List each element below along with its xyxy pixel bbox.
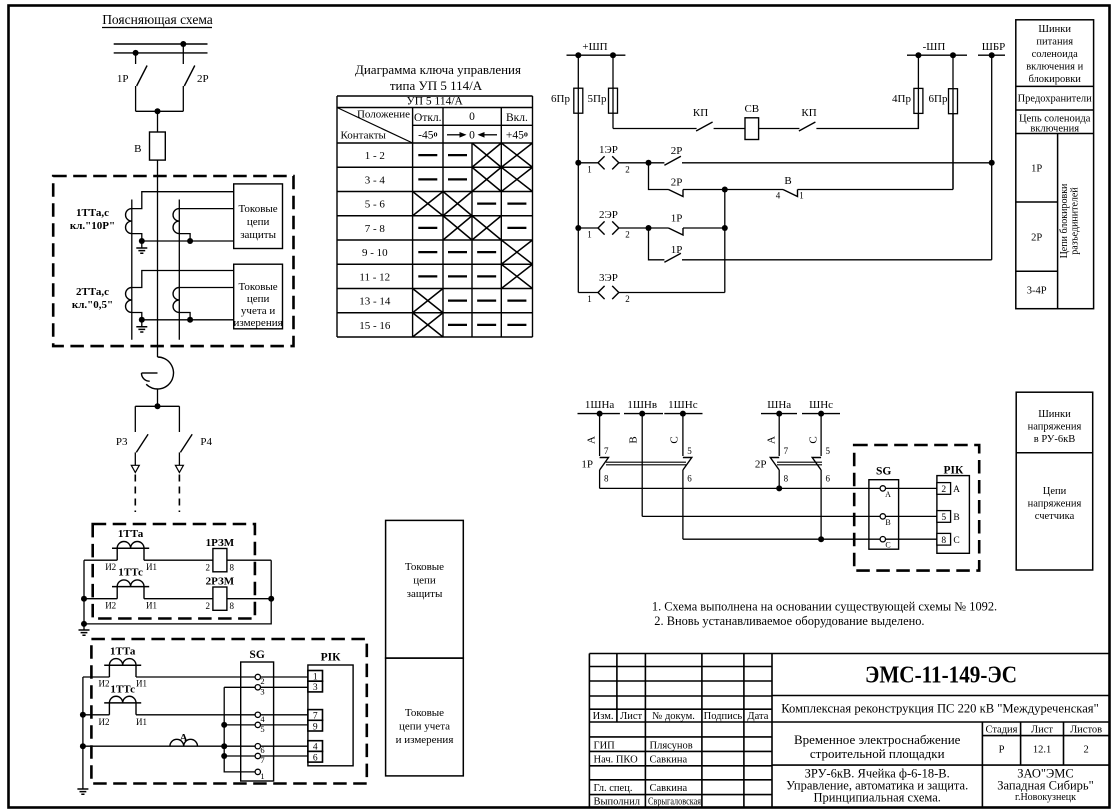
svg-text:5 - 6: 5 - 6	[365, 199, 386, 211]
svg-text:Предохранители: Предохранители	[1018, 94, 1093, 105]
svg-text:4: 4	[776, 191, 781, 201]
wire: SG 6 to РIК 4	[261, 745, 308, 747]
svg-text:напряжения: напряжения	[1028, 499, 1082, 510]
svg-text:А: А	[180, 732, 188, 744]
wire: СВ to contact КП (right)	[759, 128, 800, 130]
fuse 6Пр (right)	[952, 55, 954, 189]
svg-text:РIК: РIК	[943, 465, 964, 477]
node: ШНс tie on phase C row	[818, 536, 824, 542]
node: ground tie	[81, 621, 87, 627]
legend box: Токовые цепи защиты	[386, 520, 464, 658]
mechanical link of 1Р poles	[606, 462, 686, 465]
svg-text:5: 5	[941, 513, 946, 523]
svg-text:В: В	[784, 175, 791, 187]
svg-text:Цепи блокировки: Цепи блокировки	[1059, 183, 1070, 258]
svg-text:И1: И1	[136, 717, 147, 727]
svg-text:№ докум.: № докум.	[652, 711, 695, 722]
open arrow under Р3	[131, 465, 139, 472]
svg-text:2: 2	[625, 230, 630, 240]
wire: 6Пр down to contact В row	[952, 114, 954, 190]
wire: 1ТТа secondary bottom tap	[132, 234, 142, 241]
SG terminal 3	[255, 685, 260, 690]
disconnector contact 2Р phase a	[778, 414, 780, 456]
svg-text:типа УП 5 114/А: типа УП 5 114/А	[390, 78, 483, 93]
node: branch to 2Р NC	[646, 160, 652, 166]
svg-text:В: В	[134, 143, 141, 155]
open arrow under Р4	[175, 465, 183, 472]
node: ammeter row on ground bus	[80, 743, 86, 749]
svg-text:1Р: 1Р	[671, 213, 683, 225]
svg-text:Р3: Р3	[116, 436, 128, 448]
svg-text:SG: SG	[249, 649, 264, 661]
svg-text:2: 2	[206, 601, 211, 611]
header arrows →0←	[447, 134, 462, 136]
svg-text:+ШП: +ШП	[582, 41, 607, 53]
svg-text:ШБР: ШБР	[982, 41, 1006, 53]
svg-text:И2: И2	[105, 601, 116, 611]
svg-text:1ТТа,с: 1ТТа,с	[76, 207, 109, 219]
svg-text:SG: SG	[876, 466, 891, 478]
node: row 2ЭР on left riser	[575, 225, 581, 231]
disconnector 2Р	[182, 44, 184, 64]
РIК terminal 1	[308, 671, 323, 682]
node: ammeter row on loop riser	[221, 743, 227, 749]
svg-text:8: 8	[230, 601, 235, 611]
wire: 1ТТс secondary top tap	[179, 208, 233, 210]
svg-text:2Р: 2Р	[1031, 233, 1042, 244]
node: 4Пр tap on -ШП	[915, 52, 921, 58]
node: row2 on right return	[268, 596, 274, 602]
legend panel: solenoid/blocking circuits	[1016, 20, 1094, 309]
svg-text:Вкл.: Вкл.	[506, 112, 528, 124]
node: row 1ЭР on left riser	[575, 160, 581, 166]
svg-text:С: С	[669, 436, 681, 443]
node: row2 on left ground bus	[81, 596, 87, 602]
svg-text:ШНа: ШНа	[767, 399, 791, 411]
svg-text:2: 2	[625, 294, 630, 304]
svg-text:Западная Сибирь": Западная Сибирь"	[997, 779, 1093, 793]
SG terminal 5	[255, 722, 260, 727]
title block grid	[589, 654, 1108, 808]
current transformer 2ТТа secondary winding	[126, 288, 132, 313]
node: 2ТТс tap on return	[187, 317, 193, 323]
svg-text:СВ: СВ	[744, 103, 759, 115]
svg-text:3: 3	[313, 683, 318, 693]
svg-text:А: А	[586, 436, 598, 444]
svg-text:15 - 16: 15 - 16	[359, 320, 391, 332]
legend box: Токовые цепи учета и измерения	[386, 658, 464, 776]
svg-text:включения: включения	[1030, 124, 1079, 135]
wire: SG 4 to РIК 7	[261, 714, 308, 716]
node: junction 2Р NC / В / 1Р riser	[722, 187, 728, 193]
ground of metering circuit	[77, 789, 88, 794]
wire: 1Р NC to riser	[683, 227, 725, 229]
node: 1ТТс tap on return	[187, 238, 193, 244]
svg-text:13 - 14: 13 - 14	[359, 296, 391, 308]
wire: ammeter row (to SG 6)	[83, 745, 255, 747]
wire: 5Пр to contact КП	[613, 128, 697, 130]
wire: SG B to РIК 5	[886, 515, 937, 517]
node: row2 on ground bus	[80, 712, 86, 718]
wire: metering row 2 (to SG 4)	[83, 714, 255, 716]
svg-text:Стадия: Стадия	[985, 725, 1017, 736]
svg-text:1: 1	[799, 191, 804, 201]
svg-text:7: 7	[604, 446, 609, 456]
wire: protection left ground bus	[83, 560, 85, 630]
svg-text:УП 5 114/А: УП 5 114/А	[407, 96, 464, 108]
wire: phase A row to SG	[600, 487, 881, 489]
svg-text:кл."10Р": кл."10Р"	[70, 220, 115, 232]
РIК terminal 4	[308, 741, 323, 752]
wire: SG 5 branch	[224, 724, 255, 726]
РIК terminal 5 (phase B)	[937, 511, 951, 523]
ground of 2ТТ secondary	[141, 320, 143, 327]
svg-text:Диаграмма ключа управления: Диаграмма ключа управления	[355, 62, 521, 77]
svg-text:И1: И1	[146, 601, 157, 611]
box: Токовые цепи защиты (explanatory)	[234, 184, 283, 249]
svg-text:1ЭР: 1ЭР	[599, 144, 618, 156]
svg-text:И1: И1	[136, 679, 147, 689]
svg-text:2Р: 2Р	[755, 459, 767, 471]
svg-text:6: 6	[687, 474, 692, 484]
svg-text:Савкина: Савкина	[650, 755, 688, 766]
svg-text:Поясняющая схема: Поясняющая схема	[102, 12, 213, 27]
wire: SG 3 branch	[224, 686, 255, 688]
svg-text:Токовые: Токовые	[239, 281, 278, 293]
wire: 1Р NO to ШБР riser	[682, 259, 992, 261]
РIК terminal 6	[308, 751, 323, 762]
svg-text:2Р: 2Р	[671, 145, 683, 157]
svg-text:12.1: 12.1	[1033, 745, 1051, 756]
wire: phase c conductor	[178, 200, 180, 340]
node: ground tie of 2ТТ secondaries	[139, 317, 145, 323]
svg-text:6: 6	[826, 474, 831, 484]
svg-text:Принципиальная схема.: Принципиальная схема.	[813, 791, 941, 805]
svg-text:Шинки: Шинки	[1038, 409, 1071, 420]
test block SG (voltage)	[869, 480, 899, 550]
svg-text:Цепи: Цепи	[1043, 486, 1067, 497]
svg-text:1: 1	[587, 294, 592, 304]
svg-text:3 - 4: 3 - 4	[365, 174, 386, 186]
svg-text:1Р: 1Р	[581, 459, 593, 471]
svg-text:Сврыгаловская: Сврыгаловская	[648, 797, 701, 808]
svg-text:1ТТа: 1ТТа	[118, 528, 144, 540]
legend panel: voltage circuits	[1016, 392, 1092, 570]
wire: 1ТТс secondary bottom tap	[179, 234, 190, 241]
node: SG 5 branch	[221, 722, 227, 728]
svg-text:С: С	[808, 436, 820, 443]
wire: 2ТТс secondary bottom tap	[179, 313, 190, 320]
circuit breaker В	[150, 132, 166, 160]
svg-text:6Пр: 6Пр	[929, 93, 948, 105]
svg-text:В: В	[628, 436, 640, 443]
SG terminal 6	[255, 744, 260, 749]
SG terminal 4	[255, 712, 260, 717]
svg-text:Токовые: Токовые	[239, 203, 278, 215]
svg-text:1ТТс: 1ТТс	[118, 567, 143, 579]
wire: SG 7 to РIК 6	[261, 755, 308, 757]
node: ШБР tap	[989, 52, 995, 58]
svg-text:КП: КП	[801, 107, 816, 119]
svg-text:цепи учета: цепи учета	[399, 721, 450, 733]
svg-text:С: С	[885, 541, 890, 550]
wire: SG loop riser (3-1)	[224, 687, 255, 772]
wire: 2ТТс secondary top tap	[179, 287, 233, 289]
svg-text:А: А	[766, 436, 778, 444]
node: junction above Р3/Р4	[155, 403, 161, 409]
svg-text:2Р: 2Р	[671, 177, 683, 189]
РIК terminal 7	[308, 710, 323, 721]
disconnector contact 2Р phase c	[820, 414, 822, 456]
diagonal of Положение/Контакты cell	[337, 108, 413, 144]
svg-text:разъединителей: разъединителей	[1070, 187, 1081, 255]
svg-text:2: 2	[206, 563, 211, 573]
svg-text:1ТТс: 1ТТс	[110, 684, 135, 696]
РIК terminal 9	[308, 720, 323, 731]
wire: protection row 1	[84, 559, 271, 561]
svg-text:цепи: цепи	[247, 293, 270, 305]
ground of 1ТТ secondary	[141, 241, 143, 248]
wire: 1ТТ secondary return to protection box	[142, 240, 234, 242]
wire: ШБР riser	[991, 55, 993, 260]
svg-text:И1: И1	[146, 562, 157, 572]
node: 5Пр tap on +ШП	[610, 52, 616, 58]
svg-text:Откл.: Откл.	[414, 112, 442, 124]
svg-text:Изм.: Изм.	[593, 711, 614, 722]
wire: phase C row to SG	[683, 538, 880, 540]
SG terminal B	[880, 514, 885, 519]
meter РIК (current terminals)	[308, 665, 353, 766]
box: Токовые цепи учета и измерения (explanatory)	[234, 264, 283, 329]
svg-text:0: 0	[469, 111, 475, 123]
svg-text:ШНс: ШНс	[809, 399, 833, 411]
current transformer 2ТТс secondary winding	[173, 288, 179, 313]
wire: cable to Р3/Р4 junction	[157, 389, 159, 406]
svg-text:Токовые: Токовые	[405, 561, 444, 573]
wire: phase a conductor	[131, 200, 133, 340]
svg-text:напряжения: напряжения	[1028, 422, 1082, 433]
svg-text:2ТТа,с: 2ТТа,с	[76, 286, 109, 298]
svg-text:1Р: 1Р	[1031, 164, 1042, 175]
svg-text:Подпись: Подпись	[704, 711, 743, 722]
svg-text:8: 8	[784, 474, 789, 484]
svg-text:1. Схема выполнена на основани: 1. Схема выполнена на основании существу…	[652, 600, 997, 614]
fuse 5Пр	[612, 55, 614, 128]
РIК terminal 3	[308, 681, 323, 692]
svg-text:9 - 10: 9 - 10	[362, 247, 388, 259]
key contact 1ЭР	[578, 162, 598, 164]
wire: SG A to РIК 2	[886, 487, 937, 489]
wire: phase B row to SG	[642, 515, 880, 517]
svg-text:Лист: Лист	[620, 711, 642, 722]
svg-text:8: 8	[941, 536, 946, 546]
wire: join of 1Р and 2Р	[136, 110, 184, 112]
svg-text:Выполнил: Выполнил	[594, 797, 641, 808]
wire: 3ЭР to riser	[619, 292, 725, 294]
svg-text:Лист: Лист	[1031, 725, 1053, 736]
svg-text:ГИП: ГИП	[594, 741, 616, 752]
SG terminal 2	[255, 674, 260, 679]
SG terminal 1	[255, 769, 260, 774]
key contact 3ЭР	[578, 292, 598, 294]
svg-text:1ТТа: 1ТТа	[110, 646, 136, 658]
svg-text:Комплексная реконструкция ПС 2: Комплексная реконструкция ПС 220 кВ "Меж…	[781, 702, 1099, 716]
dashed cell boundary (metering CT compartment)	[91, 639, 366, 784]
wire: 2ТТ secondary return to metering box	[142, 319, 234, 321]
svg-text:в РУ-6кВ: в РУ-6кВ	[1034, 434, 1075, 445]
wire: breaker В to cable head (phase b main line)	[157, 160, 159, 357]
wire: 2Р NC to В	[683, 189, 783, 191]
disconnector 1Р	[135, 53, 137, 64]
svg-text:1ШНв: 1ШНв	[627, 399, 657, 411]
svg-text:7: 7	[784, 446, 789, 456]
svg-text:1 - 2: 1 - 2	[365, 150, 385, 162]
svg-text:цепи: цепи	[247, 216, 270, 228]
svg-text:В: В	[885, 518, 890, 527]
svg-text:1Р: 1Р	[117, 73, 129, 85]
node: row2 on 724 riser	[722, 225, 728, 231]
svg-text:г.Новокузнецк: г.Новокузнецк	[1015, 792, 1076, 803]
svg-text:9: 9	[313, 722, 318, 732]
svg-text:1: 1	[587, 165, 592, 175]
node: junction below 1Р/2Р	[155, 108, 161, 114]
svg-text:цепи: цепи	[413, 575, 436, 587]
dashed feeder under Р3	[134, 475, 136, 513]
svg-text:2РЗМ: 2РЗМ	[206, 576, 235, 588]
SG terminal 7	[255, 753, 260, 758]
svg-text:и измерения: и измерения	[396, 734, 454, 746]
node: 2Р-8 tie on phase A row	[776, 485, 782, 491]
svg-text:А: А	[953, 485, 960, 495]
svg-text:соленоида: соленоида	[1032, 49, 1079, 60]
key contact 2ЭР	[578, 227, 598, 229]
svg-text:Положение: Положение	[357, 109, 410, 121]
node: tap of 1Р on lower bus	[133, 50, 139, 56]
svg-text:2: 2	[1083, 745, 1088, 756]
svg-text:2: 2	[941, 485, 946, 495]
svg-text:Савкина: Савкина	[650, 783, 688, 794]
svg-text:Р4: Р4	[200, 436, 212, 448]
dashed cell boundary (metering cubicle, voltage)	[854, 445, 979, 571]
fuse 4Пр	[917, 55, 919, 128]
svg-text:А: А	[885, 490, 891, 499]
svg-text:РIК: РIК	[321, 652, 342, 664]
wire: protection return loop	[84, 560, 271, 624]
wire: SG 5 to РIК 9	[261, 724, 308, 726]
svg-text:В: В	[953, 513, 959, 523]
svg-text:счетчика: счетчика	[1035, 511, 1075, 522]
svg-text:2: 2	[625, 165, 630, 175]
svg-text:Контакты: Контакты	[341, 130, 387, 142]
svg-text:защиты: защиты	[240, 229, 276, 241]
svg-text:КП: КП	[693, 107, 708, 119]
wire: SG C to РIК 8	[886, 538, 937, 540]
wire: 2ТТа secondary bottom tap	[132, 313, 142, 320]
svg-text:1ШНа: 1ШНа	[585, 399, 615, 411]
wire: SG 7 branch	[224, 755, 255, 757]
fuse 6Пр (left)	[577, 55, 579, 113]
svg-text:питания: питания	[1036, 37, 1073, 48]
svg-text:3-4Р: 3-4Р	[1027, 286, 1047, 297]
svg-text:Р: Р	[999, 745, 1005, 756]
dashed cell boundary (protection CT compartment)	[93, 524, 255, 619]
key diagram table grid	[337, 96, 533, 337]
wire: 2Р to ШБР	[682, 162, 992, 164]
SG terminal A	[880, 486, 885, 491]
wire: protection row 2	[84, 598, 271, 600]
svg-text:Шинки: Шинки	[1038, 24, 1071, 35]
svg-text:Плясунов: Плясунов	[650, 741, 693, 752]
busbar (double bus)	[114, 44, 208, 53]
wire: metering left ground bus	[82, 677, 84, 789]
meter РIК (voltage terminals)	[937, 476, 970, 554]
svg-text:8: 8	[604, 474, 609, 484]
wire: 1ТТа secondary top tap to protection box	[132, 192, 234, 209]
wire: SG 2 to РIК 1	[261, 676, 308, 678]
svg-text:учета и: учета и	[241, 305, 275, 317]
svg-text:1РЗМ: 1РЗМ	[206, 537, 235, 549]
ground of protection circuit	[79, 630, 90, 635]
wire: metering row 1 (to SG 2)	[83, 676, 255, 678]
mechanical link of 2Р poles	[777, 462, 822, 465]
current transformer 1ТТс secondary winding	[173, 209, 179, 234]
svg-text:Дата: Дата	[747, 711, 768, 722]
wire: branch bar to Р3 and Р4	[135, 406, 179, 432]
test block SG (current)	[241, 662, 274, 781]
dashed feeder under Р4	[178, 475, 180, 513]
disconnector Р3	[136, 434, 148, 452]
svg-text:5: 5	[826, 446, 831, 456]
svg-text:И2: И2	[99, 717, 110, 727]
wire: 1ЭР to 2Р	[619, 162, 665, 164]
svg-text:6Пр: 6Пр	[551, 93, 570, 105]
svg-text:-ШП: -ШП	[923, 41, 946, 53]
disconnector contact 1Р phase a	[599, 414, 601, 456]
svg-text:1: 1	[587, 230, 592, 240]
svg-text:6: 6	[313, 753, 318, 763]
svg-text:5: 5	[687, 446, 692, 456]
РIК terminal 2 (phase A)	[937, 483, 951, 495]
svg-text:строительной площадки: строительной площадки	[810, 746, 945, 761]
disconnector contact 1Р phase c	[682, 414, 684, 456]
svg-text:2ЭР: 2ЭР	[599, 209, 618, 221]
node: SG 7 branch	[221, 753, 227, 759]
svg-text:Временное электроснабжение: Временное электроснабжение	[794, 732, 961, 747]
svg-text:1ШНс: 1ШНс	[668, 399, 698, 411]
svg-text:ЭМС-11-149-ЭС: ЭМС-11-149-ЭС	[865, 663, 1017, 689]
wire: phase b feeder down	[641, 414, 643, 517]
svg-text:кл."0,5": кл."0,5"	[72, 299, 113, 311]
svg-text:Листов: Листов	[1070, 725, 1102, 736]
wire: 2ТТа secondary top tap to metering box	[132, 271, 234, 288]
svg-text:3ЭР: 3ЭР	[599, 272, 618, 284]
svg-text:измерения: измерения	[234, 317, 283, 329]
svg-text:Токовые: Токовые	[405, 707, 444, 719]
svg-text:С: С	[953, 536, 959, 546]
wire: В to 6Пр fuse	[798, 189, 954, 191]
svg-text:2. Вновь устанавливаемое обору: 2. Вновь устанавливаемое оборудование вы…	[654, 614, 924, 628]
svg-text:И2: И2	[99, 679, 110, 689]
svg-text:И2: И2	[105, 562, 116, 572]
SG terminal C	[880, 537, 885, 542]
РIК terminal 8 (phase C)	[937, 533, 951, 545]
wire: КП to fuse 4Пр	[816, 114, 918, 129]
wire: branch down to 2Р NC	[649, 163, 669, 190]
current transformer 1ТТа secondary winding	[126, 209, 132, 234]
node: 6Пр tap on +ШП	[575, 52, 581, 58]
svg-text:0: 0	[469, 129, 475, 141]
svg-text:2Р: 2Р	[197, 73, 209, 85]
